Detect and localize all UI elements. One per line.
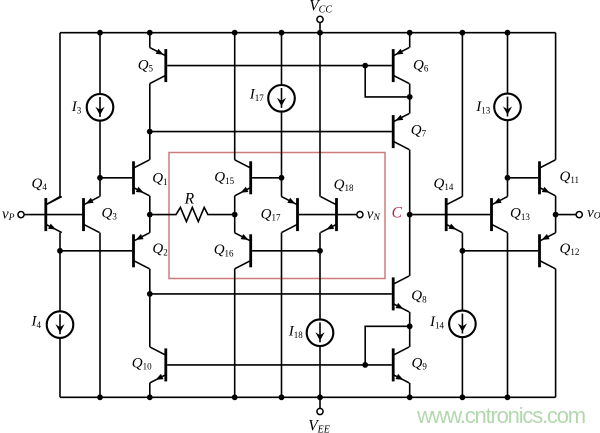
transistor Q7 (392, 114, 409, 150)
wire Q11 collector from VCC rail (555, 33, 557, 160)
wire Q4 collector to VCC rail (46, 33, 60, 205)
wire Q8 collector to node C (409, 215, 411, 276)
wire Q1 collector to node (149, 132, 151, 160)
wire VCC terminal stem (319, 23, 321, 33)
wire Q1 base (100, 177, 132, 179)
wire I18 to VEE rail (319, 346, 321, 397)
wire Q2 collector to node (149, 269, 151, 294)
node Q6 collector / Q7 emitter (407, 94, 413, 100)
current source I18 (307, 319, 334, 346)
wire node to I14 (461, 251, 463, 311)
wire Q12 base (462, 250, 538, 252)
node R left (147, 212, 153, 218)
wire Q5 emitter from VCC rail (149, 33, 151, 48)
transistor Q6 (392, 48, 409, 84)
node first stage bottom (147, 291, 153, 297)
wire Q15 emitter to R node (234, 196, 236, 215)
svg-text:R: R (184, 190, 195, 207)
wire node to I4 (59, 251, 61, 311)
terminal VCC (317, 16, 323, 22)
wire I17 to node (281, 112, 283, 178)
wire Q6 base-collector tie (365, 66, 410, 97)
wire I14 to VEE rail (461, 337, 463, 397)
wire Q9 collector from tie node (409, 326, 411, 347)
transistor Q13 (490, 197, 507, 233)
wire Q2 base (60, 250, 132, 252)
wire Q12 emitter to output node (555, 215, 557, 233)
node Q13 emitter / I13 / Q11 base (505, 175, 511, 181)
wire Q14 emitter to node (461, 233, 463, 251)
resistor R (150, 207, 235, 221)
current source I4 (47, 311, 74, 338)
wire output node to vO terminal (556, 214, 577, 216)
wire Q7 emitter from tie node (409, 97, 411, 114)
transistor Q8 (392, 276, 409, 312)
terminal VEE (317, 408, 323, 414)
transistor Q15 (235, 160, 252, 196)
wire node to I18 (319, 251, 321, 320)
wire vP input line (24, 214, 82, 216)
wire Q2 emitter to R node (149, 215, 151, 233)
wire Q13 collector to VEE rail (507, 233, 509, 398)
wire Q10-Q9 base line (167, 364, 392, 366)
node Q3 emitter / I3 / Q1 base (97, 175, 103, 181)
node Q6 base tie (362, 63, 368, 69)
node Q17 emitter / I17 / Q15 base (279, 175, 285, 181)
node Q18 emitter / I18 / Q16 base (317, 248, 323, 254)
wire first-stage collector line (150, 131, 392, 133)
wire I4 to VEE rail (59, 338, 61, 397)
transistor Q9 (392, 347, 409, 383)
wire I3 from VCC rail (99, 33, 101, 94)
wire Q6 collector to tie node (409, 84, 411, 97)
current source I17 (268, 85, 295, 112)
node Q4 emitter / I4 / Q2 base (57, 248, 63, 254)
wire VEE terminal stem (319, 397, 321, 408)
transistor Q3 (82, 197, 99, 233)
node first stage top (147, 129, 153, 135)
wire I3 to node (99, 121, 101, 178)
wire I17 from VCC rail (281, 33, 283, 85)
wire Q17 collector to VEE rail (281, 233, 283, 398)
wire Q18 collector to VCC rail (319, 33, 321, 197)
wire Q3 emitter vertical (99, 178, 101, 197)
wire Q16 collector to VEE rail (234, 269, 236, 398)
wire Q9 emitter to VEE rail (409, 383, 411, 397)
wire Q11 base (508, 177, 539, 179)
node R right (232, 212, 238, 218)
node output (553, 212, 559, 218)
transistor Q2 (132, 233, 149, 269)
wire Q12 collector to VEE rail (555, 269, 557, 398)
wire I13 from VCC rail (507, 33, 509, 94)
wire Q4 emitter to node (59, 233, 61, 251)
transistor Q16 (235, 233, 252, 269)
terminal vN (357, 212, 363, 218)
wire second collector line to Q8 base (150, 293, 392, 295)
wire Q5-Q6 base line (167, 65, 392, 67)
wire Q15 collector to VCC rail (234, 33, 236, 160)
current source I3 (87, 94, 114, 121)
wire I13 to node (507, 120, 509, 178)
wire Q10 collector to node (149, 294, 151, 347)
junction dots on VCC rail (97, 30, 103, 36)
wire Q18 emitter to node (319, 233, 321, 251)
VEE bottom rail (60, 396, 556, 398)
transistor Q12 (538, 233, 555, 269)
wire Q13 emitter vertical (507, 178, 509, 197)
wire Q10 emitter to VEE rail (149, 383, 151, 397)
wire Q1 emitter to R node (149, 196, 151, 215)
wire Q16 emitter to R node (234, 215, 236, 233)
wire Q14 collector to VCC rail (461, 33, 463, 197)
node Q8 emitter / Q9 collector (407, 323, 413, 329)
wire Q11 emitter to output node (555, 196, 557, 215)
svg-text:C: C (392, 205, 403, 222)
wire Q16 base to node (252, 250, 320, 252)
node Q14 emitter / I14 / Q12 base (460, 248, 466, 254)
transistor Q18 (321, 197, 338, 233)
wire Q5 collector to node (149, 84, 151, 132)
wire Q17 emitter vertical (281, 178, 283, 197)
transistor Q10 (150, 347, 167, 383)
wire Q7 collector to node C (409, 150, 411, 215)
wire Q9 base-collector tie (365, 326, 410, 365)
wire node C to Q13 base (410, 214, 490, 216)
transistor Q1 (132, 160, 149, 196)
red highlight box (compensation network) (169, 153, 385, 279)
wire Q17-Q18 base line to vN (299, 214, 357, 216)
wire Q3 collector to VEE rail (99, 233, 101, 398)
junction dots on VEE rail (97, 394, 103, 400)
terminal vO (576, 212, 582, 218)
current source I13 (494, 94, 521, 121)
current source I14 (449, 311, 476, 338)
transistor Q17 (282, 197, 299, 233)
transistor Q11 (538, 160, 555, 196)
svg-text:www.cntronics.com: www.cntronics.com (416, 403, 585, 428)
VCC top rail (60, 32, 556, 34)
wire Q15 base to node (252, 177, 281, 179)
transistor Q5 (150, 48, 167, 84)
terminal vP (18, 212, 24, 218)
node C junction (407, 212, 413, 218)
transistor Q14 (445, 197, 462, 233)
wire Q8 emitter to tie node (409, 312, 411, 326)
node Q9 base tie (362, 362, 368, 368)
transistor Q4 (44, 197, 61, 233)
wire Q6 emitter from VCC rail (409, 33, 411, 48)
